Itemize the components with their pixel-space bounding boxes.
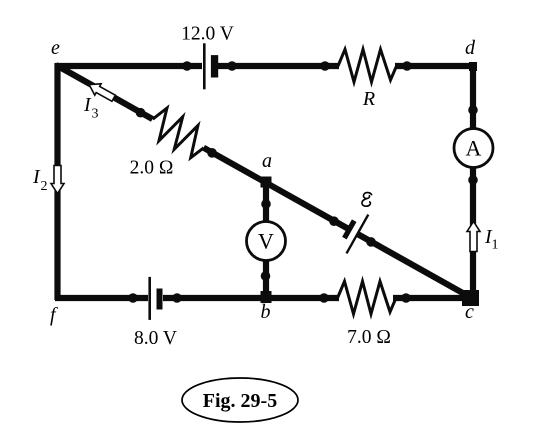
node c junction square (462, 290, 479, 306)
current I3 arrow (86, 79, 117, 104)
svg-text:3: 3 (92, 107, 99, 122)
svg-text:e: e (51, 37, 60, 59)
svg-text:a: a (262, 150, 272, 172)
resistor R zigzag (338, 49, 397, 82)
svg-text:A: A (466, 136, 482, 161)
junction dot left of 7.0 ohm (319, 293, 329, 303)
junction dot right of 7.0 ohm (401, 293, 411, 303)
junction dot left of 8V battery (128, 293, 138, 303)
junction dot right of 8V battery (172, 293, 182, 303)
junction dot right of resistor R (402, 61, 412, 71)
wire diagonal emf battery to c (358, 234, 473, 298)
battery 12.0 V long plate (203, 43, 206, 89)
svg-text:V: V (258, 229, 274, 254)
emf battery thick plate (342, 219, 356, 239)
wire bottom battery to resistor (163, 295, 339, 301)
svg-text:7.0 Ω: 7.0 Ω (347, 327, 391, 348)
svg-text:c: c (465, 301, 474, 323)
junction dot diagonal after emf battery (366, 237, 376, 247)
svg-text:Fig. 29-5: Fig. 29-5 (203, 390, 277, 412)
resistor 7.0 ohm zigzag (338, 281, 397, 314)
junction dot below node a (261, 199, 271, 209)
wire diagonal e to resistor 2.0 (56, 65, 153, 119)
current I2 arrow (51, 166, 64, 194)
node d corner (469, 62, 477, 71)
battery 12.0 V short thick plate (211, 55, 218, 77)
wire bottom f to battery (55, 295, 148, 301)
svg-text:d: d (465, 37, 476, 59)
junction dot right of 12V battery (227, 61, 237, 71)
wire top resistor R to corner d (395, 63, 473, 69)
resistor 2.0 ohm zigzag on diagonal (145, 105, 212, 162)
battery 8.0 V short thick plate (157, 289, 163, 310)
ammeter A1 circle (454, 129, 493, 168)
svg-text:2.0 Ω: 2.0 Ω (130, 158, 174, 179)
svg-text:R: R (362, 88, 375, 110)
wire top e to battery (55, 63, 202, 69)
junction dot below ammeter (468, 175, 478, 185)
wire right ammeter to c (470, 166, 476, 298)
wire diagonal resistor 2.0 to emf battery (204, 148, 350, 230)
wire node a to voltmeter (263, 180, 269, 223)
wire right d to ammeter (470, 63, 476, 130)
emf battery long thin plate (346, 215, 368, 254)
junction dot left of resistor R (320, 61, 330, 71)
battery 8.0 V long plate (148, 277, 151, 320)
junction dot diagonal before 2.0 ohm (136, 108, 146, 118)
junction dot above ammeter (468, 105, 478, 115)
emf script E label (362, 193, 372, 207)
wire top battery to resistor R (216, 63, 339, 69)
svg-text:b: b (261, 301, 271, 323)
svg-text:12.0 V: 12.0 V (181, 24, 234, 45)
node b junction square (261, 291, 272, 303)
wire bottom resistor to c (393, 295, 474, 301)
junction dot left of 12V battery (182, 61, 192, 71)
wire voltmeter to node b (263, 259, 269, 298)
junction dot above node b (261, 271, 271, 281)
svg-text:8.0 V: 8.0 V (134, 328, 177, 349)
node a junction square (261, 177, 272, 188)
junction dot diagonal after 2.0 ohm (207, 148, 217, 158)
svg-text:2: 2 (41, 179, 48, 194)
wire left e to f (54, 63, 60, 300)
figure caption ellipse (182, 378, 298, 422)
voltmeter V1 circle (247, 222, 286, 261)
junction dot diagonal before emf battery (329, 216, 339, 226)
svg-text:1: 1 (492, 238, 499, 253)
current I1 arrow (467, 222, 480, 252)
